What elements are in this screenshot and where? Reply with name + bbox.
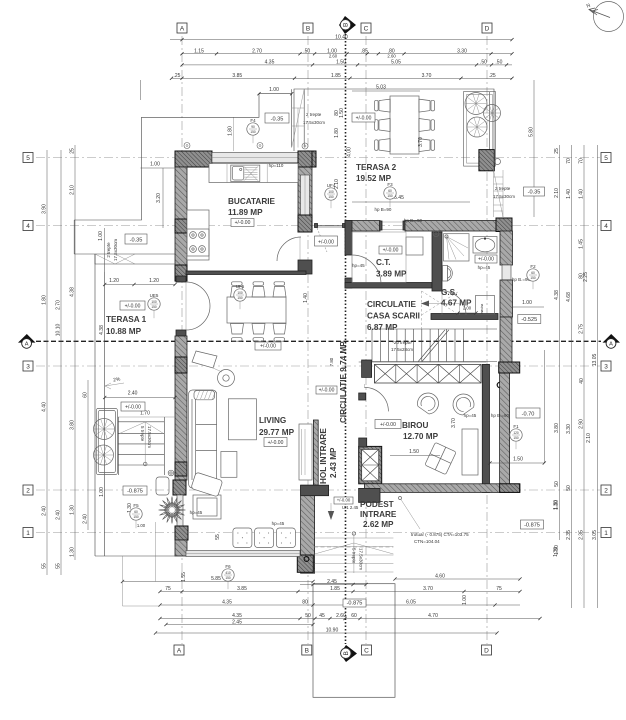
- svg-text:150: 150: [133, 515, 139, 519]
- svg-text:11.89 MP: 11.89 MP: [228, 208, 263, 217]
- svg-text:5 trepte: 5 trepte: [140, 426, 145, 442]
- svg-text:F3: F3: [387, 182, 393, 187]
- svg-text:1: 1: [26, 530, 30, 537]
- svg-text:F2: F2: [530, 264, 536, 269]
- svg-text:2.60: 2.60: [336, 613, 346, 619]
- svg-text:.50: .50: [480, 60, 487, 66]
- svg-text:F5: F5: [133, 503, 139, 508]
- svg-text:410: 410: [225, 571, 231, 575]
- svg-text:2 trepte: 2 trepte: [106, 242, 111, 258]
- svg-text:B: B: [343, 23, 350, 27]
- svg-text:1.30: 1.30: [553, 500, 559, 510]
- svg-text:HOL INTRARE: HOL INTRARE: [319, 428, 328, 484]
- svg-text:3.90: 3.90: [42, 204, 48, 214]
- svg-text:masina: masina: [480, 304, 484, 315]
- svg-text:BIROU: BIROU: [402, 421, 428, 430]
- svg-text:6.87 MP: 6.87 MP: [367, 323, 398, 332]
- svg-text:150: 150: [237, 296, 243, 300]
- svg-text:2.25: 2.25: [583, 272, 589, 282]
- svg-text:3.80: 3.80: [70, 420, 76, 430]
- svg-text:LIVING: LIVING: [259, 416, 286, 425]
- svg-text:1.50: 1.50: [336, 60, 346, 66]
- svg-text:4.40: 4.40: [42, 402, 48, 412]
- svg-text:1.55: 1.55: [181, 572, 187, 582]
- svg-text:25: 25: [554, 148, 560, 154]
- svg-text:1.20: 1.20: [149, 278, 159, 284]
- svg-text:G.S.: G.S.: [441, 288, 457, 297]
- svg-text:A: A: [25, 342, 29, 348]
- svg-text:3.70: 3.70: [423, 586, 433, 592]
- svg-text:1: 1: [604, 530, 608, 537]
- svg-text:+/-0.00: +/-0.00: [356, 116, 372, 122]
- svg-text:C.T.: C.T.: [376, 258, 391, 267]
- svg-text:2.35: 2.35: [566, 530, 572, 540]
- svg-text:17.5x30cm: 17.5x30cm: [113, 239, 118, 261]
- svg-text:+/-0.00: +/-0.00: [125, 405, 141, 411]
- svg-text:4.00: 4.00: [347, 147, 353, 157]
- svg-text:A: A: [609, 342, 613, 348]
- svg-text:4.35: 4.35: [232, 613, 242, 619]
- svg-text:1.15: 1.15: [194, 48, 204, 54]
- svg-text:3.70: 3.70: [451, 418, 457, 428]
- svg-text:5: 5: [26, 155, 30, 162]
- svg-text:2 trepte: 2 trepte: [306, 112, 322, 117]
- svg-text:+/-0.00: +/-0.00: [260, 344, 276, 350]
- svg-text:3.85: 3.85: [237, 586, 247, 592]
- svg-text:4.67 MP: 4.67 MP: [441, 299, 472, 308]
- svg-text:60: 60: [134, 510, 138, 514]
- svg-text:4.60: 4.60: [435, 574, 445, 580]
- svg-text:F1: F1: [513, 424, 519, 429]
- svg-text:1.50: 1.50: [339, 108, 345, 118]
- svg-text:120: 120: [513, 431, 519, 435]
- svg-text:17.5x28cm: 17.5x28cm: [391, 347, 413, 352]
- svg-text:2: 2: [26, 487, 30, 494]
- svg-text:2.75: 2.75: [579, 324, 585, 334]
- svg-text:UI1 2.45: UI1 2.45: [342, 505, 359, 510]
- svg-text:100: 100: [151, 300, 157, 304]
- svg-text:-0.525: -0.525: [521, 317, 537, 323]
- svg-text:10.90: 10.90: [326, 628, 339, 634]
- svg-text:2.70: 2.70: [252, 48, 262, 54]
- svg-text:-0.875: -0.875: [127, 489, 143, 495]
- svg-text:CIRCULATIE 9.74 MP: CIRCULATIE 9.74 MP: [339, 341, 348, 423]
- svg-text:C: C: [364, 25, 369, 32]
- svg-text:2.43 MP: 2.43 MP: [329, 447, 338, 478]
- svg-text:1.80: 1.80: [334, 128, 340, 138]
- svg-text:2.35: 2.35: [579, 530, 585, 540]
- svg-text:3.20: 3.20: [156, 193, 162, 203]
- svg-text:2.60: 2.60: [329, 54, 338, 59]
- svg-text:25: 25: [70, 148, 76, 154]
- svg-text:5.85: 5.85: [211, 576, 221, 582]
- svg-text:-0.875: -0.875: [524, 523, 540, 529]
- svg-text:10.40: 10.40: [335, 34, 348, 40]
- svg-text:hp B=90: hp B=90: [375, 207, 392, 212]
- svg-text:10.88 MP: 10.88 MP: [106, 327, 142, 336]
- svg-text:-0.35: -0.35: [130, 238, 143, 244]
- svg-text:+/-0.00: +/-0.00: [380, 422, 396, 428]
- svg-text:50: 50: [566, 485, 572, 491]
- svg-text:1.30: 1.30: [70, 505, 76, 515]
- svg-text:1.45: 1.45: [579, 239, 585, 249]
- svg-text:.25: .25: [489, 73, 496, 79]
- svg-text:hp=45: hp=45: [272, 521, 285, 526]
- svg-text:150: 150: [328, 195, 334, 199]
- svg-text:4.38: 4.38: [554, 290, 560, 300]
- svg-text:INTRARE: INTRARE: [360, 510, 397, 519]
- svg-text:3.30: 3.30: [457, 48, 467, 54]
- svg-text:1.00: 1.00: [522, 300, 532, 306]
- svg-text:3: 3: [26, 363, 30, 370]
- svg-text:+/-0.00: +/-0.00: [235, 220, 251, 226]
- svg-text:A: A: [180, 25, 185, 32]
- svg-text:5.80: 5.80: [529, 127, 535, 137]
- svg-text:55: 55: [42, 563, 48, 569]
- svg-text:hp B.=90: hp B.=90: [491, 413, 510, 418]
- svg-text:2.40: 2.40: [42, 506, 48, 516]
- svg-text:1.20: 1.20: [109, 278, 119, 284]
- svg-text:150: 150: [250, 130, 256, 134]
- svg-text:55: 55: [215, 534, 221, 540]
- svg-text:3.85: 3.85: [232, 73, 242, 79]
- svg-text:5 trepte: 5 trepte: [352, 548, 357, 564]
- svg-text:-20 trepte: -20 trepte: [392, 340, 412, 345]
- svg-text:3.70: 3.70: [422, 73, 432, 79]
- svg-text:2.60: 2.60: [387, 54, 396, 59]
- svg-text:+/-0.00: +/-0.00: [337, 498, 351, 503]
- svg-text:+/-0.00: +/-0.00: [125, 304, 141, 310]
- svg-text:150: 150: [530, 276, 536, 280]
- svg-text:2.62 MP: 2.62 MP: [363, 520, 394, 529]
- svg-text:1.50: 1.50: [513, 457, 523, 463]
- svg-text:hp=45: hp=45: [464, 413, 477, 418]
- svg-text:1.85: 1.85: [331, 73, 341, 79]
- svg-text:F4: F4: [250, 118, 256, 123]
- svg-text:5.05: 5.05: [391, 60, 401, 66]
- svg-text:3.70: 3.70: [418, 137, 424, 147]
- svg-text:29.77 MP: 29.77 MP: [259, 428, 295, 437]
- svg-text:hp=45: hp=45: [190, 510, 203, 515]
- svg-text:3.30: 3.30: [566, 424, 572, 434]
- svg-text:80: 80: [302, 600, 308, 606]
- svg-text:2.10: 2.10: [554, 188, 560, 198]
- svg-text:100: 100: [237, 291, 243, 295]
- svg-text:.50: .50: [303, 48, 310, 54]
- svg-text:50: 50: [305, 613, 311, 619]
- svg-text:150: 150: [151, 305, 157, 309]
- svg-text:2.40: 2.40: [83, 514, 89, 524]
- svg-text:2.10: 2.10: [586, 433, 592, 443]
- svg-text:3.80: 3.80: [554, 423, 560, 433]
- svg-text:4.70: 4.70: [428, 613, 438, 619]
- svg-text:17.5x30cm: 17.5x30cm: [303, 120, 325, 125]
- svg-text:90: 90: [251, 125, 255, 129]
- svg-text:3: 3: [604, 363, 608, 370]
- svg-text:1.50: 1.50: [409, 449, 419, 455]
- svg-text:1.30: 1.30: [70, 547, 76, 557]
- svg-text:-0.35: -0.35: [271, 117, 284, 123]
- svg-text:4.38: 4.38: [99, 325, 105, 335]
- svg-text:2.45: 2.45: [232, 620, 242, 626]
- svg-text:19.52 MP: 19.52 MP: [356, 174, 392, 183]
- svg-text:1.80: 1.80: [228, 126, 234, 136]
- svg-text:5: 5: [604, 155, 608, 162]
- svg-text:CASA SCARII: CASA SCARII: [367, 312, 420, 321]
- svg-text:2.40: 2.40: [128, 391, 138, 397]
- svg-text:2: 2: [604, 487, 608, 494]
- svg-text:3.89 MP: 3.89 MP: [376, 270, 407, 279]
- svg-text:17.5x30cm: 17.5x30cm: [147, 426, 152, 448]
- svg-text:1.85: 1.85: [330, 586, 340, 592]
- svg-text:4.35: 4.35: [265, 60, 275, 66]
- svg-text:17.5x30cm: 17.5x30cm: [493, 194, 515, 199]
- svg-text:1.40: 1.40: [303, 293, 309, 303]
- svg-text:+/-0.00: +/-0.00: [383, 248, 399, 254]
- svg-text:75: 75: [496, 586, 502, 592]
- svg-text:hp=110: hp=110: [269, 163, 284, 168]
- svg-text:C: C: [364, 647, 369, 654]
- svg-text:.50: .50: [495, 60, 502, 66]
- svg-text:1.00: 1.00: [269, 87, 279, 93]
- svg-text:trotuar (- 0.875) CTA=103.75: trotuar (- 0.875) CTA=103.75: [411, 532, 469, 537]
- svg-text:TERASA 2: TERASA 2: [356, 163, 397, 172]
- svg-text:PODEST: PODEST: [360, 500, 394, 509]
- svg-text:.25: .25: [174, 73, 181, 79]
- svg-text:12.70 MP: 12.70 MP: [403, 432, 439, 441]
- svg-text:+/-0.00: +/-0.00: [319, 388, 335, 394]
- svg-text:4.68: 4.68: [566, 292, 572, 302]
- svg-text:1.70: 1.70: [140, 411, 150, 417]
- svg-text:-0.70: -0.70: [522, 412, 535, 418]
- svg-text:1.00: 1.00: [98, 231, 104, 241]
- svg-text:D: D: [484, 647, 489, 654]
- svg-text:60: 60: [83, 392, 89, 398]
- svg-text:2.10: 2.10: [70, 185, 76, 195]
- svg-text:60: 60: [531, 271, 535, 275]
- svg-text:5.03: 5.03: [376, 85, 386, 91]
- svg-text:1.00: 1.00: [462, 595, 468, 605]
- svg-text:13.05: 13.05: [592, 354, 598, 367]
- svg-text:45: 45: [319, 613, 325, 619]
- svg-text:F6: F6: [225, 564, 231, 569]
- svg-text:1.00: 1.00: [150, 162, 160, 168]
- svg-text:CTN=104.04: CTN=104.04: [414, 539, 440, 544]
- svg-text:10.10: 10.10: [56, 324, 62, 337]
- svg-text:A: A: [177, 647, 182, 654]
- svg-text:1.80: 1.80: [42, 295, 48, 305]
- svg-text:7.80: 7.80: [329, 357, 334, 366]
- svg-text:4.38: 4.38: [70, 287, 76, 297]
- svg-text:1.00: 1.00: [99, 487, 105, 497]
- svg-text:-0.35: -0.35: [528, 190, 541, 196]
- svg-text:-0.875: -0.875: [347, 601, 363, 607]
- svg-text:TERASA 1: TERASA 1: [106, 315, 147, 324]
- svg-text:60: 60: [388, 189, 392, 193]
- svg-text:2 trepte: 2 trepte: [495, 186, 511, 191]
- svg-text:hp=45: hp=45: [478, 265, 491, 270]
- svg-text:2.40: 2.40: [56, 510, 62, 520]
- svg-text:100: 100: [328, 190, 334, 194]
- svg-text:4: 4: [604, 223, 608, 230]
- svg-text:75: 75: [165, 586, 171, 592]
- svg-text:3.05: 3.05: [592, 530, 598, 540]
- svg-text:1.40: 1.40: [579, 189, 585, 199]
- svg-text:B: B: [306, 25, 310, 32]
- svg-text:70: 70: [566, 158, 572, 164]
- svg-text:+/-0.00: +/-0.00: [478, 257, 494, 263]
- svg-text:60: 60: [351, 613, 357, 619]
- svg-text:2.45: 2.45: [327, 579, 337, 585]
- svg-text:40: 40: [579, 378, 585, 384]
- svg-text:55: 55: [56, 563, 62, 569]
- svg-text:hp=45: hp=45: [352, 263, 365, 268]
- svg-text:CIRCULATIE: CIRCULATIE: [367, 300, 417, 309]
- svg-text:D: D: [485, 25, 490, 32]
- svg-text:6.05: 6.05: [406, 600, 416, 606]
- svg-text:1.40: 1.40: [566, 189, 572, 199]
- svg-text:4.35: 4.35: [222, 600, 232, 606]
- svg-text:.85: .85: [361, 48, 368, 54]
- svg-text:UF5: UF5: [236, 284, 245, 289]
- svg-text:17.5x30cm: 17.5x30cm: [359, 548, 364, 570]
- svg-text:UF4: UF4: [327, 183, 336, 188]
- svg-text:hp B.=90: hp B.=90: [404, 218, 423, 223]
- svg-text:150: 150: [225, 576, 231, 580]
- svg-text:4: 4: [26, 223, 30, 230]
- svg-text:+/-0.00: +/-0.00: [318, 240, 334, 246]
- svg-text:+/-0.00: +/-0.00: [268, 440, 284, 446]
- svg-text:2.90: 2.90: [579, 419, 585, 429]
- svg-text:70: 70: [579, 158, 585, 164]
- svg-text:1.00: 1.00: [137, 523, 146, 528]
- svg-text:150: 150: [513, 436, 519, 440]
- svg-text:1.30: 1.30: [553, 547, 559, 557]
- svg-text:BUCATARIE: BUCATARIE: [228, 197, 276, 206]
- svg-text:2.70: 2.70: [56, 300, 62, 310]
- svg-text:B: B: [343, 651, 350, 655]
- svg-text:150: 150: [387, 194, 393, 198]
- svg-text:B: B: [305, 647, 309, 654]
- svg-text:2%: 2%: [113, 376, 122, 383]
- svg-text:UE5: UE5: [150, 293, 159, 298]
- svg-text:50: 50: [554, 481, 560, 487]
